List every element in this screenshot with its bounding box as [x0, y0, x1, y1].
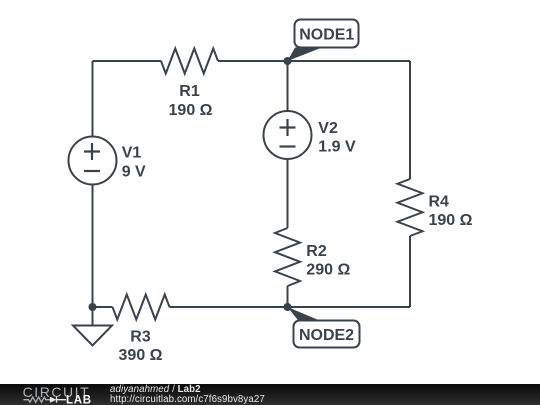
node NODE1 callout tail	[288, 48, 323, 62]
svg-text:NODE1: NODE1	[299, 27, 354, 44]
svg-text:R4: R4	[429, 194, 450, 211]
voltage source V2 (circle body)	[264, 111, 312, 159]
voltage source V1 plus sign	[84, 143, 100, 160]
svg-text:LAB: LAB	[66, 394, 92, 405]
svg-text:R3: R3	[130, 329, 151, 346]
wire: bottom rail right segment (corner to NODE2)	[288, 306, 411, 308]
svg-text:190 Ω: 190 Ω	[169, 102, 213, 119]
wire: bottom rail left segment (R3 to ground junction)	[93, 306, 113, 308]
ground symbol triangle	[73, 326, 112, 346]
svg-text:190 Ω: 190 Ω	[429, 212, 473, 229]
ground stub wire	[92, 307, 94, 326]
svg-text:290 Ω: 290 Ω	[306, 262, 350, 279]
voltage source V2 plus sign	[280, 119, 296, 136]
CircuitLab logo	[0, 384, 100, 405]
wire: middle rail center (V2 bottom to R2)	[287, 159, 289, 229]
svg-text:1.9 V: 1.9 V	[318, 139, 356, 156]
wire: middle rail upper (NODE1 to V2 top)	[287, 61, 289, 112]
logo diode glyph	[50, 397, 57, 403]
wire: right rail upper (top-right corner to R4)	[409, 61, 411, 179]
voltage source V2 minus sign	[280, 145, 296, 147]
wire: left rail lower (V1 bottom to ground junction)	[92, 185, 94, 308]
svg-text:9 V: 9 V	[122, 164, 146, 181]
svg-text:390 Ω: 390 Ω	[119, 347, 163, 364]
svg-text:V1: V1	[122, 145, 142, 162]
node NODE2 junction dot	[284, 303, 292, 311]
wire: left rail upper (top-left corner to V1 top)	[92, 61, 94, 137]
svg-text:NODE2: NODE2	[299, 327, 354, 344]
wire: bottom rail middle segment (NODE2 to R3)	[170, 306, 288, 308]
logo resistor glyph	[23, 397, 50, 402]
wire: right rail lower (R4 to bottom-right corner)	[409, 236, 411, 307]
node NODE1 callout box	[295, 20, 359, 48]
wire: top rail left segment (corner to R1)	[93, 60, 162, 62]
node NODE2 callout tail	[288, 307, 323, 322]
svg-text:R1: R1	[179, 83, 200, 100]
junction dot at ground / R3	[89, 303, 97, 311]
footer bar background	[0, 384, 540, 405]
node NODE2 callout box	[294, 321, 360, 348]
node NODE1 junction dot	[284, 57, 292, 65]
resistor R2 (zigzag)	[275, 228, 300, 286]
wire: middle rail lower (R2 to NODE2)	[287, 286, 289, 307]
svg-text:V2: V2	[318, 120, 338, 137]
resistor R3 (zigzag)	[113, 295, 170, 320]
svg-text:R2: R2	[306, 243, 327, 260]
voltage source V1 (circle body)	[69, 137, 117, 185]
footer credit text	[110, 385, 265, 405]
resistor R1 (zigzag)	[161, 49, 218, 74]
resistor R4 (zigzag)	[398, 179, 423, 236]
wire: top rail right segment (R1 to top-right corner)	[218, 60, 410, 62]
voltage source V1 minus sign	[84, 170, 100, 172]
